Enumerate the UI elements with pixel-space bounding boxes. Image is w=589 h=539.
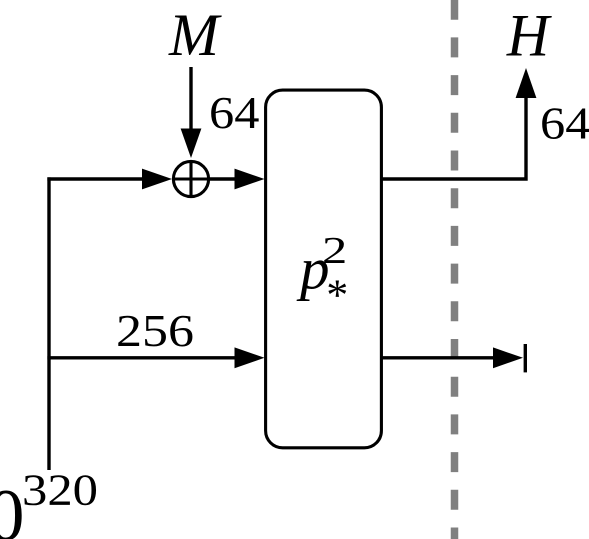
arrowhead to terminator: [493, 347, 523, 368]
svg-text:2: 2: [322, 230, 347, 272]
wire: 256 horizontal into block: [47, 356, 237, 359]
arrowhead into block (bottom): [235, 347, 265, 368]
terminator bar: [524, 344, 527, 372]
wire: block output top to corner: [381, 96, 526, 179]
arrowhead H up: [516, 68, 537, 98]
svg-text:H: H: [506, 3, 553, 69]
arrowhead M down: [181, 129, 202, 159]
label p*^2: [296, 230, 348, 319]
xor junction: [173, 161, 208, 196]
wire: block output bottom: [381, 356, 494, 359]
wire: XOR to block: [209, 177, 237, 180]
arrowhead into block (top): [235, 169, 265, 190]
svg-text:M: M: [168, 2, 222, 68]
wire: M input vertical: [189, 67, 192, 131]
wire: left vertical from 0^320: [47, 177, 50, 470]
svg-text:0: 0: [0, 475, 25, 539]
svg-text:256: 256: [116, 305, 194, 356]
arrowhead into XOR: [142, 169, 172, 190]
label 0^320: [0, 466, 98, 539]
block U1 p*^2: [266, 90, 382, 448]
svg-text:*: *: [326, 270, 348, 319]
wire: top horizontal into XOR: [47, 177, 146, 180]
svg-text:64: 64: [540, 99, 589, 149]
svg-text:320: 320: [22, 466, 98, 515]
dashed boundary line: [451, 0, 459, 539]
svg-text:64: 64: [209, 88, 259, 138]
